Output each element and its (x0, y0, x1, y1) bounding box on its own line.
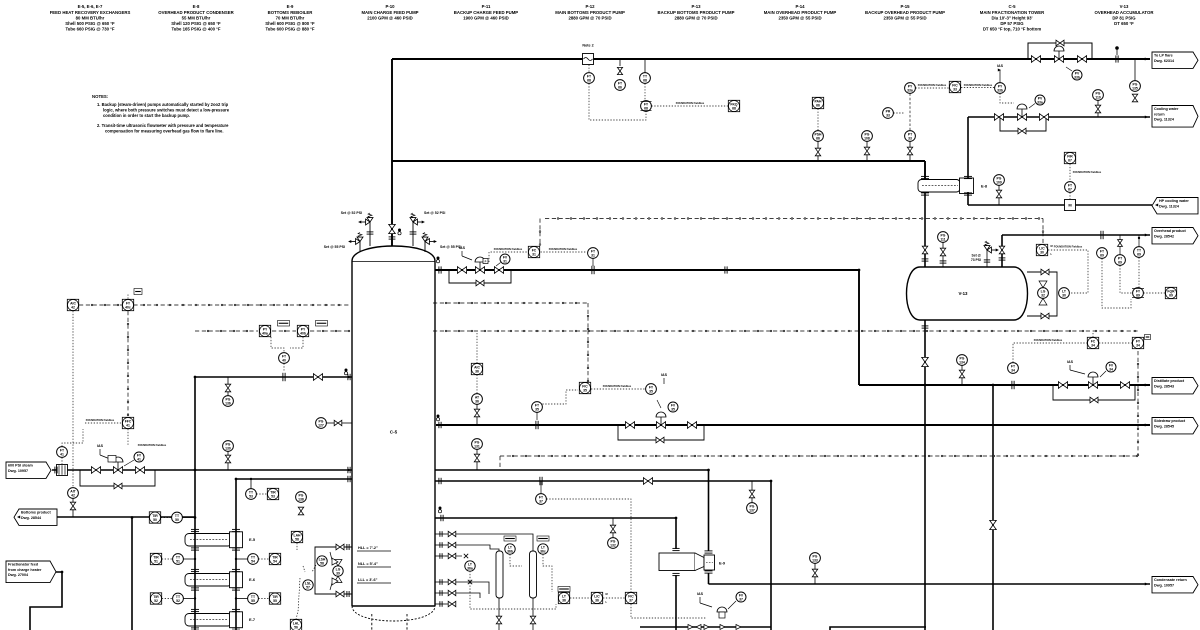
svg-text:135: 135 (1132, 86, 1138, 90)
orifice distillate (1011, 381, 1013, 389)
svg-text:Fractionator feed: Fractionator feed (8, 563, 39, 567)
svg-text:from charge heater: from charge heater (8, 568, 42, 572)
orifice on overhead product (1100, 231, 1102, 239)
wire feed line into column (195, 376, 352, 378)
svg-text:Dwg. 62314: Dwg. 62314 (1154, 59, 1175, 63)
svg-text:34: 34 (1011, 368, 1015, 372)
svg-text:Set @ 55 PSI: Set @ 55 PSI (324, 245, 345, 249)
C-5 bottom dashed boot lines (372, 614, 407, 630)
svg-text:58: 58 (320, 561, 324, 565)
control valve FV 34 (1088, 382, 1097, 389)
wire flare header to LP flare (392, 58, 1150, 60)
svg-text:Dwg. 11324: Dwg. 11324 (1154, 118, 1175, 122)
control valve FV 41 (113, 467, 122, 474)
svg-text:30: 30 (1040, 250, 1044, 254)
svg-text:34: 34 (1091, 343, 1095, 347)
wire feed from charge heater path (30, 572, 62, 630)
valve standpipe drain 2 (530, 616, 535, 624)
svg-text:2880 GPM @ 70 PSID: 2880 GPM @ 70 PSID (568, 15, 611, 20)
node junction 676,518 (675, 517, 678, 520)
svg-text:Tube 165 PSIG @ 400 °F: Tube 165 PSIG @ 400 °F (171, 27, 220, 32)
flange reboiler nozzle (440, 515, 442, 521)
flange reflux at column (438, 266, 440, 273)
valve standpipe drain 1 (496, 616, 501, 624)
svg-text:36: 36 (595, 598, 599, 602)
valve flare block left (1031, 56, 1040, 63)
instrument TT 55 TIR 55 pair (248, 593, 259, 604)
svg-text:31: 31 (591, 253, 595, 257)
instrument LAL 56 (290, 619, 301, 630)
valve check row bottom (688, 625, 693, 630)
control valve PV 33b on flare (1054, 56, 1063, 63)
instrument FQR 69 (1165, 287, 1176, 298)
svg-text:compensation for measuring ove: compensation for measuring overhead gas … (105, 129, 224, 134)
node HP cooling water flag (1152, 198, 1198, 214)
valve distillate bypass (1090, 397, 1098, 403)
wire cooling water return header (968, 116, 1150, 118)
wire column outlet right upper (435, 469, 709, 471)
wire signal row PY40 left (195, 330, 258, 332)
svg-text:40a: 40a (262, 331, 268, 335)
svg-text:31: 31 (532, 252, 536, 256)
instrument FT 69 (1097, 248, 1108, 259)
instrument FIR 67 (1064, 152, 1075, 163)
valve under PG 138 (298, 507, 303, 515)
instrument LT 30 (1059, 288, 1070, 299)
control valve FV 31 (475, 267, 484, 274)
svg-text:33b: 33b (997, 88, 1003, 92)
svg-text:37: 37 (629, 598, 633, 602)
svg-text:LLL = 3'-6": LLL = 3'-6" (358, 578, 378, 582)
svg-text:32: 32 (1041, 293, 1045, 297)
exchanger E-6 feed heat recovery (185, 569, 256, 590)
wire cooling return bypass (1000, 117, 1046, 131)
svg-text:FOUNDATION Fieldbus: FOUNDATION Fieldbus (1054, 245, 1083, 249)
wire distillate bypass (1053, 385, 1135, 400)
wire reboiler drop to E-9 (675, 518, 677, 549)
instrument FT 68 (584, 73, 595, 84)
svg-text:V-13: V-13 (1120, 4, 1129, 9)
svg-text:109: 109 (996, 180, 1002, 184)
wire LIC30-LT30 link (1048, 250, 1088, 293)
svg-text:MAIN FRACTIONATION TOWER: MAIN FRACTIONATION TOWER (980, 10, 1045, 15)
svg-text:condition in order to start th: condition in order to start the backup p… (103, 113, 190, 118)
instrument PG 108 (862, 131, 873, 142)
instrument FT 41 (57, 447, 68, 458)
instrument FT 37 (536, 494, 547, 505)
svg-text:130: 130 (225, 446, 231, 450)
wire HP cooling water line (968, 204, 1152, 206)
wire bottoms draw to exchangers (236, 478, 352, 480)
instrument FY 41 tag (134, 452, 144, 462)
instrument FIC 33 (949, 81, 960, 92)
standpipe bridle 1 (496, 551, 503, 598)
svg-text:Note 2: Note 2 (582, 44, 593, 48)
node To LP flare flag (1152, 52, 1198, 68)
wire reflux line to column (435, 269, 859, 271)
instrument PG 135 (1130, 81, 1141, 92)
wire pump discharge riser (992, 385, 994, 630)
svg-text:OVERHEAD PRODUCT CONDENSER: OVERHEAD PRODUCT CONDENSER (158, 10, 234, 15)
instrument PG 109 (994, 175, 1005, 186)
instrument LT 36b (505, 544, 515, 554)
svg-text:DP 81 PSIG: DP 81 PSIG (1112, 15, 1136, 20)
svg-text:Dwg. 27004: Dwg. 27004 (8, 573, 29, 577)
valve bottoms line (643, 478, 652, 485)
svg-text:66: 66 (816, 136, 820, 140)
wire signal FY68 to FKQ68 (651, 105, 728, 107)
svg-text:68: 68 (643, 78, 647, 82)
valve on flare riser (389, 224, 396, 233)
svg-text:Dwg. 10957: Dwg. 10957 (8, 469, 28, 473)
svg-text:BACKUP CHARGE FEED PUMP: BACKUP CHARGE FEED PUMP (454, 10, 519, 15)
instrument FT 34 (1008, 363, 1019, 374)
svg-text:34: 34 (1136, 343, 1140, 347)
svg-text:36a: 36a (467, 566, 473, 570)
wire bottom right corner line (830, 627, 926, 630)
wire steam bypass (80, 470, 155, 486)
svg-text:36: 36 (475, 369, 479, 373)
instrument FY 68 (641, 101, 652, 112)
instrument PY 40b (297, 325, 308, 336)
wire E-9 shell bottom outlet (675, 575, 677, 630)
instrument FT 40 (279, 353, 290, 364)
svg-text:2100 GPM @ 460 PSID: 2100 GPM @ 460 PSID (367, 15, 413, 20)
instrument PSH 66 (813, 131, 824, 142)
svg-text:2350 GPM @ 55 PSID: 2350 GPM @ 55 PSID (778, 15, 821, 20)
svg-text:1900 GPM @ 460 PSID: 1900 GPM @ 460 PSID (463, 15, 509, 20)
svg-text:55 MM BTU/hr: 55 MM BTU/hr (182, 15, 211, 20)
instrument FC 34 (1087, 337, 1098, 348)
svg-text:FOUNDATION Fieldbus: FOUNDATION Fieldbus (603, 384, 632, 388)
svg-text:V-13: V-13 (958, 291, 968, 296)
valve tap PT 69 (1118, 240, 1123, 247)
svg-text:FOUNDATION Fieldbus: FOUNDATION Fieldbus (676, 101, 705, 105)
node bridle piping C-5 right upper (435, 531, 456, 559)
valve flare block right (1077, 56, 1086, 63)
valve reflux bypass (476, 280, 484, 286)
instrument PG 110 (1093, 90, 1104, 101)
valve under PG 135 (1132, 94, 1137, 102)
instrument FC 31 (528, 246, 539, 257)
svg-text:Shell 600 PSIG @ 800 °F: Shell 600 PSIG @ 800 °F (265, 21, 315, 26)
wire E-8 outlet down to V-13 (924, 192, 926, 267)
notes text block (92, 94, 230, 134)
instrument FY 69 totalizer (1133, 288, 1144, 299)
svg-text:P-11: P-11 (482, 4, 491, 9)
svg-text:BOTTOMS REBOILER: BOTTOMS REBOILER (268, 10, 314, 15)
valve V-13 outlet (922, 357, 929, 366)
svg-text:P-15: P-15 (900, 4, 910, 9)
node junction 195,517.5 (194, 516, 197, 519)
svg-text:DT 650 °F top, 710 °F bottom: DT 650 °F top, 710 °F bottom (983, 27, 1042, 32)
svg-text:C-5: C-5 (390, 430, 398, 435)
exchanger E-5 feed heat recovery (185, 529, 256, 550)
svg-text:NOTES:: NOTES: (92, 94, 109, 99)
relief valve PSV set 55 left (324, 233, 363, 253)
svg-text:IAS: IAS (459, 246, 466, 250)
wire bottoms line right (435, 480, 771, 482)
orifice reflux FT31 (591, 266, 593, 274)
wire sidedraw product line (436, 424, 1150, 426)
control valve FV 35 (656, 422, 665, 429)
svg-text:IAS: IAS (697, 592, 704, 596)
wire bottoms drop to pumps (770, 481, 772, 630)
instrument PG 137 (747, 503, 758, 514)
svg-text:36b: 36b (507, 549, 513, 553)
svg-text:P: P (485, 260, 487, 264)
svg-text:33a: 33a (907, 88, 913, 92)
node junction 195,470 (194, 469, 197, 472)
flange steam nozzle (347, 467, 349, 473)
wire fieldbus trunk top (545, 218, 1043, 220)
svg-text:2. Transit-time ultrasonic flo: 2. Transit-time ultrasonic flowmeter wit… (97, 123, 229, 128)
svg-text:53: 53 (271, 494, 275, 498)
wire distillate product header (859, 384, 1150, 386)
node Fractionator feed flag (6, 561, 56, 583)
instrument PY 33b (995, 83, 1006, 94)
svg-text:42: 42 (71, 493, 75, 497)
node junction 771,481 (770, 480, 773, 483)
svg-text:67: 67 (1068, 158, 1072, 162)
svg-text:40b: 40b (300, 331, 306, 335)
valve steam block 1 (91, 467, 100, 474)
svg-text:BACKUP BOTTOMS PRODUCT PUMP: BACKUP BOTTOMS PRODUCT PUMP (658, 10, 735, 15)
svg-text:55: 55 (251, 599, 255, 603)
valve cooling return block 1 (994, 114, 1003, 121)
svg-text:33: 33 (953, 87, 957, 91)
svg-text:111: 111 (940, 237, 945, 241)
svg-text:Sidedraw product: Sidedraw product (1154, 419, 1186, 423)
svg-text:E-8: E-8 (981, 184, 988, 189)
svg-text:Shell 500 PSIG @ 650 °F: Shell 500 PSIG @ 650 °F (65, 21, 115, 26)
svg-text:80 MM BTU/hr: 80 MM BTU/hr (76, 15, 105, 20)
svg-text:P-14: P-14 (795, 4, 805, 9)
svg-text:Overhead product: Overhead product (1154, 229, 1187, 233)
instrument PG 138 (296, 492, 307, 503)
valve V-13 vapor outlet (999, 246, 1004, 254)
standpipe bridle 2 (530, 551, 537, 598)
svg-text:Set @ 52 PSI: Set @ 52 PSI (341, 211, 362, 215)
valve steam bypass (114, 483, 122, 489)
svg-text:HP cooling water: HP cooling water (1159, 199, 1189, 203)
svg-text:69: 69 (1118, 260, 1122, 264)
svg-text:M: M (1051, 244, 1053, 248)
orifice bottoms FT37 (539, 477, 541, 485)
svg-text:DT 650 °F: DT 650 °F (1114, 21, 1134, 26)
valve under PG 109 (996, 190, 1001, 198)
valve under PG 134 (959, 370, 964, 378)
wire reboiler draw line (435, 517, 676, 519)
svg-text:133: 133 (812, 558, 818, 562)
svg-text:137: 137 (749, 508, 755, 512)
wire flare bypass loop (1028, 43, 1092, 59)
valve E-8 to V-13 inlet (922, 246, 927, 254)
svg-text:73 PSI: 73 PSI (971, 258, 981, 262)
valve above PG 130 (225, 455, 230, 463)
wire FIR-FT 67 link (1069, 164, 1071, 181)
node junction 236,479 (235, 478, 238, 481)
svg-text:Dwg. 11324: Dwg. 11324 (1159, 204, 1180, 208)
instrument FY 34 (1132, 337, 1143, 348)
instrument LT 36 (558, 592, 569, 603)
node bridle piping C-5 left (315, 544, 352, 597)
instrument FV 31 tag (500, 254, 510, 264)
wire signal trunk y456 (500, 455, 1138, 457)
vent sidedraw at column (437, 415, 440, 418)
orifice sidedraw (535, 421, 537, 429)
instrument TT 54 TIR 54 pair (248, 554, 259, 565)
svg-text:33: 33 (886, 113, 890, 117)
wire steam supply line (52, 469, 352, 471)
flange steam flag (54, 467, 56, 474)
svg-text:FOUNDATION Fieldbus: FOUNDATION Fieldbus (1034, 338, 1063, 342)
svg-text:E-5, E-6, E-7: E-5, E-6, E-7 (78, 4, 103, 9)
svg-text:FOUNDATION Fieldbus: FOUNDATION Fieldbus (86, 418, 115, 422)
svg-text:53: 53 (249, 494, 253, 498)
svg-text:OVERHEAD ACCUMULATOR: OVERHEAD ACCUMULATOR (1095, 10, 1155, 15)
wire cooling water return riser (967, 117, 969, 179)
wire LT36 standpipe links (510, 554, 522, 566)
valve above PG 136 (225, 384, 230, 392)
instrument LG 39 gauge (333, 566, 343, 576)
instrument TT 53 TIR 53 pair (246, 489, 257, 500)
svg-text:36c: 36c (540, 549, 546, 553)
svg-text:P-12: P-12 (585, 4, 595, 9)
svg-text:FOUNDATION Fieldbus: FOUNDATION Fieldbus (138, 443, 167, 447)
wire bottoms product line (52, 516, 195, 518)
node Sidedraw product flag (1152, 418, 1198, 434)
svg-text:37: 37 (539, 499, 543, 503)
node junction 859,270 (858, 269, 861, 272)
valve under PSH 66 (815, 148, 820, 156)
valve distillate block left (1058, 382, 1067, 389)
svg-text:Dwg. 10957: Dwg. 10957 (1154, 583, 1174, 587)
instrument PAH 66 (812, 97, 823, 108)
instrument AIC 36 (471, 363, 482, 374)
instrument PG 133 (810, 553, 821, 564)
instrument FT 67 (1065, 182, 1076, 193)
svg-text:30: 30 (1062, 293, 1066, 297)
valve feed line (313, 374, 322, 381)
svg-text:Dwg. 28543: Dwg. 28543 (1154, 384, 1174, 388)
svg-text:131: 131 (474, 444, 480, 448)
wire signal FY34 drop (1137, 351, 1139, 456)
valve distillate block right (1120, 382, 1129, 389)
svg-text:54: 54 (273, 559, 277, 563)
svg-text:41: 41 (60, 452, 64, 456)
instrument PG 132 (608, 538, 619, 549)
flange draw nozzle (347, 476, 349, 482)
svg-text:50: 50 (175, 518, 179, 522)
wire condensate return line (708, 573, 710, 584)
instrument TIR 51 TT 51 pair (150, 553, 161, 564)
svg-text:50: 50 (153, 518, 157, 522)
svg-text:IAS: IAS (997, 64, 1004, 68)
svg-text:IAS: IAS (661, 373, 668, 377)
valve cooling return bypass (1018, 128, 1026, 134)
svg-text:Dia 10'-3" Height 93': Dia 10'-3" Height 93' (991, 15, 1032, 20)
svg-text:FOUNDATION Fieldbus: FOUNDATION Fieldbus (1073, 170, 1102, 174)
exchanger E-9 bottoms reboiler (659, 548, 726, 575)
wire sidedraw bypass (618, 425, 704, 440)
instrument PG 127 (316, 418, 327, 429)
svg-text:66: 66 (816, 103, 820, 107)
node junction 708.5,470 (707, 469, 710, 472)
svg-text:52: 52 (154, 599, 158, 603)
svg-text:2880 GPM @ 70 PSID: 2880 GPM @ 70 PSID (674, 15, 717, 20)
instrument FT 31 (588, 248, 599, 259)
instrument AT 36 (472, 394, 483, 405)
svg-text:IAS: IAS (97, 444, 104, 448)
wire signal row y303 right (433, 302, 588, 304)
svg-text:FOUNDATION Fieldbus: FOUNDATION Fieldbus (549, 247, 578, 251)
svg-text:39: 39 (336, 571, 340, 575)
svg-text:40: 40 (282, 358, 286, 362)
svg-text:37: 37 (739, 597, 743, 601)
svg-text:108: 108 (864, 136, 870, 140)
instrument FIC 37 (625, 592, 636, 603)
svg-text:68: 68 (644, 106, 648, 110)
node 600 PSI steam flag (6, 462, 51, 478)
svg-text:return: return (1154, 112, 1165, 116)
svg-text:MAIN CHARGE FEED PUMP: MAIN CHARGE FEED PUMP (361, 10, 418, 15)
node junction 195,377 (194, 376, 197, 379)
vent reboiler draw at column (439, 507, 442, 510)
svg-text:2350 GPM @ 55 PSID: 2350 GPM @ 55 PSID (883, 15, 926, 20)
svg-text:M: M (606, 592, 608, 596)
svg-text:E-7: E-7 (249, 617, 255, 622)
vent feed at column (345, 369, 348, 372)
wire exchanger shell vertical (235, 479, 237, 630)
svg-text:36: 36 (562, 598, 566, 602)
svg-text:51: 51 (154, 559, 158, 563)
svg-text:NLL = 5'-4": NLL = 5'-4" (358, 562, 378, 566)
wire overhead product line (1002, 234, 1150, 236)
wire FT37 to FIC37 (546, 499, 631, 592)
valve under PG 111 (940, 248, 945, 256)
relief valve V-13 set 73 (971, 241, 999, 267)
valve under PT 33 (907, 147, 912, 155)
instrument FY 40c (122, 299, 133, 310)
svg-text:34: 34 (1109, 367, 1113, 371)
instrument TT 69 (1134, 247, 1145, 258)
valve cooling return block 2 (1039, 114, 1048, 121)
instrument LAH 58 (291, 531, 302, 542)
valve reflux block 2 (494, 267, 503, 274)
wire bridle to standpipes (456, 534, 533, 551)
instrument FFC 41 (122, 417, 133, 428)
svg-text:41: 41 (137, 457, 141, 461)
svg-text:69: 69 (1169, 293, 1173, 297)
wire pump suction bottom left (640, 626, 771, 628)
svg-text:MAIN OVERHEAD PRODUCT PUMP: MAIN OVERHEAD PRODUCT PUMP (764, 10, 837, 15)
svg-text:127: 127 (318, 423, 324, 427)
valve flare bypass (1056, 40, 1064, 46)
wire reflux bypass (449, 270, 511, 283)
instrument LSH 58 (317, 556, 327, 566)
instrument FE flow element (57, 465, 68, 476)
instrument PG 134 (957, 355, 968, 366)
svg-text:110: 110 (1095, 95, 1101, 99)
flange feed nozzle (347, 374, 349, 380)
instrument PR 33 (883, 108, 894, 119)
wire signal FY40c drop to FFC41 (127, 311, 129, 416)
svg-text:E-8: E-8 (193, 4, 200, 9)
node junction 993,385 (992, 384, 995, 387)
instrument TT 68 (640, 73, 651, 84)
C-5 level marks HLL NLL LLL (357, 546, 391, 583)
